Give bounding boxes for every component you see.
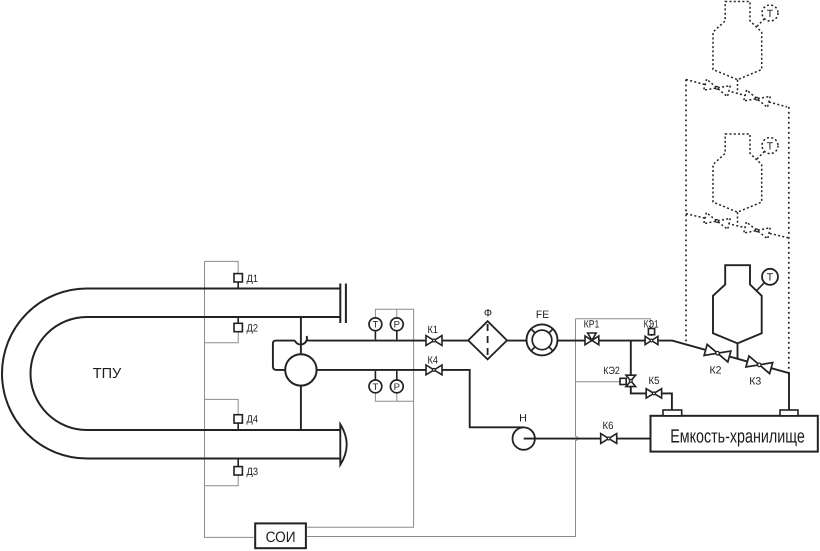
- ТПУ prover loop inner pipe wall: [31, 317, 341, 430]
- detector Д3: [234, 467, 242, 475]
- detector Д4: [234, 415, 242, 423]
- 4-way valve circle: [285, 354, 316, 385]
- filter Ф: [468, 321, 507, 359]
- svg-text:Т: Т: [372, 382, 378, 393]
- control valve КР1: [585, 333, 599, 345]
- svg-text:К5: К5: [649, 375, 660, 387]
- wire: drop from 4-way valve to bottom pipe: [300, 386, 302, 430]
- detector Д2: [234, 323, 242, 331]
- wire: main К1 process line: [306, 341, 789, 410]
- svg-text:Т: Т: [767, 272, 774, 284]
- svg-text:Д3: Д3: [247, 466, 259, 478]
- wire: gray control line to КЭ1 actuator: [576, 319, 651, 329]
- wire: КЭ2 branch down from main line: [631, 341, 672, 410]
- wire: detector Д1 signal lead: [205, 261, 239, 273]
- dotted boundary vertical left: [685, 80, 687, 345]
- svg-text:СОИ: СОИ: [266, 529, 296, 546]
- svg-text:КЭ1: КЭ1: [644, 318, 659, 330]
- dashed vessel (middle, future): [713, 134, 762, 212]
- valve К1: [426, 336, 442, 346]
- valve К4: [426, 365, 442, 375]
- detector Д1: [234, 274, 242, 282]
- svg-text:ТПУ: ТПУ: [93, 366, 122, 382]
- svg-text:К3: К3: [749, 376, 761, 388]
- svg-text:Емкость-хранилище: Емкость-хранилище: [670, 426, 805, 447]
- instrument P upper: [390, 318, 403, 331]
- wire: gray signal trunk from detectors to СОИ: [205, 261, 254, 537]
- svg-text:К2: К2: [710, 364, 722, 376]
- flow element FE: [527, 324, 558, 355]
- instrument T on vessel: [762, 269, 778, 285]
- solenoid valve КЭ1: [645, 336, 658, 344]
- svg-text:Р: Р: [394, 382, 400, 393]
- valve К2 on slant: [704, 344, 731, 362]
- svg-text:FE: FE: [536, 309, 549, 321]
- svg-text:К1: К1: [428, 324, 439, 336]
- svg-text:КР1: КР1: [584, 318, 600, 330]
- instrument T lower: [369, 380, 382, 393]
- wire: gray instrument trunk to СОИ right upper: [307, 309, 413, 527]
- svg-text:Т: Т: [767, 8, 774, 20]
- svg-text:КЭ2: КЭ2: [603, 365, 620, 377]
- wire: К4 line from 4-way valve to pump: [317, 370, 524, 427]
- svg-text:К4: К4: [428, 354, 439, 366]
- svg-text:К6: К6: [603, 420, 614, 432]
- svg-text:Р: Р: [394, 320, 400, 331]
- storage tank Емкость-хранилище: [651, 416, 818, 452]
- dashed vessel (top, future): [713, 2, 762, 80]
- svg-text:Д1: Д1: [247, 273, 259, 285]
- wire: detector Д3 signal lead: [205, 475, 239, 486]
- wire: gray control trunk to СОИ (КР1/КЭ1/КЭ2): [307, 319, 578, 537]
- wire: pump discharge line to tank: [524, 438, 651, 440]
- flange at top pipe end: [340, 284, 346, 324]
- svg-text:Н: Н: [519, 413, 527, 425]
- ТПУ prover loop outer pipe wall: [2, 289, 340, 459]
- wire: gray control line to КЭ2 actuator: [576, 381, 621, 383]
- wire: detector Д4 signal lead: [205, 399, 239, 414]
- svg-text:Ф: Ф: [484, 307, 492, 319]
- dashed slant line middle with valves: [686, 214, 789, 238]
- valve К6: [601, 434, 617, 444]
- measuring vessel (solid): [713, 265, 762, 343]
- СОИ box: [255, 523, 306, 548]
- solenoid valve КЭ2: [626, 375, 636, 386]
- wire: loop from К1 line to 4-way valve left port: [273, 341, 295, 370]
- svg-text:Т: Т: [372, 320, 378, 331]
- dished cap at bottom pipe end: [340, 424, 346, 464]
- dashed slant line top with valves: [686, 80, 787, 107]
- instrument T upper: [369, 318, 382, 331]
- wire: К1 line crossing hop: [295, 336, 307, 344]
- valve К5: [646, 389, 661, 398]
- wire: gray instrument loop upper T/P: [375, 309, 413, 318]
- wire: vessel stem to К2-К3 line: [737, 343, 739, 358]
- instrument P lower: [390, 380, 403, 393]
- instrument T on top dashed vessel: [762, 5, 778, 21]
- svg-text:Т: Т: [767, 141, 774, 153]
- wire: riser from top pipe to 4-way valve: [300, 317, 302, 354]
- svg-text:Д4: Д4: [247, 414, 259, 426]
- wire: gray instrument loop lower T/P: [375, 392, 413, 401]
- pump Н: [513, 427, 535, 449]
- wire: detector Д2 signal lead: [205, 332, 239, 343]
- instrument T on middle dashed vessel: [762, 138, 778, 154]
- dotted boundary vertical right: [788, 107, 790, 373]
- valve К3 on slant: [746, 356, 773, 374]
- svg-text:Д2: Д2: [247, 323, 259, 335]
